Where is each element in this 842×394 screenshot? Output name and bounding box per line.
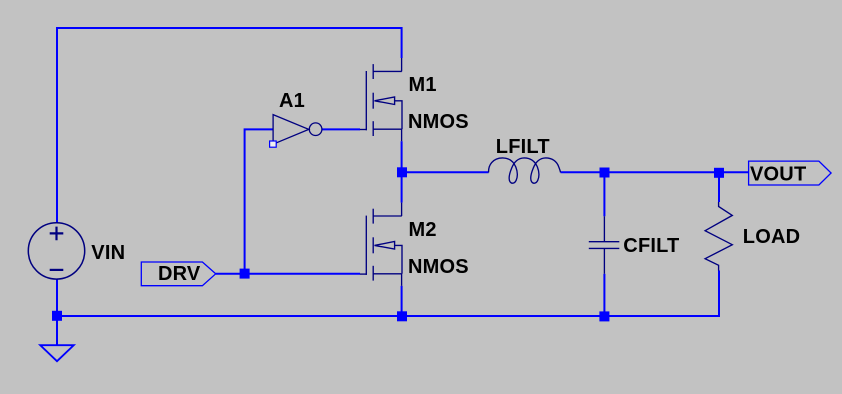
svg-text:NMOS: NMOS	[408, 111, 469, 133]
svg-text:M1: M1	[409, 74, 437, 96]
svg-text:VOUT: VOUT	[750, 163, 806, 185]
svg-text:A1: A1	[279, 90, 305, 112]
svg-text:CFILT: CFILT	[623, 235, 679, 257]
svg-text:LOAD: LOAD	[743, 226, 800, 248]
svg-text:NMOS: NMOS	[408, 256, 469, 278]
svg-text:VIN: VIN	[91, 242, 125, 264]
svg-text:LFILT: LFILT	[496, 136, 550, 158]
svg-text:DRV: DRV	[158, 263, 201, 285]
svg-text:M2: M2	[409, 219, 437, 241]
